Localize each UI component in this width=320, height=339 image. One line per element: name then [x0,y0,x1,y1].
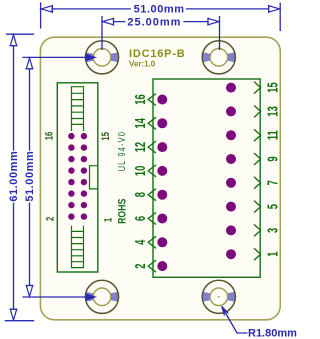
dimension 51.00mm left [22,57,88,297]
svg-text:5: 5 [264,204,281,209]
connector J1 bottom polarization slot [72,226,84,268]
mounting hole bottom-right [202,280,235,313]
svg-text:8: 8 [132,192,149,197]
hole center arrow bottom-left [86,293,98,301]
svg-text:51.00mm: 51.00mm [134,4,185,16]
svg-text:1: 1 [264,252,281,257]
even pin arrows [148,94,156,273]
svg-text:61.00mm: 61.00mm [8,151,20,202]
svg-text:51.00mm: 51.00mm [24,151,36,202]
svg-text:14: 14 [132,118,149,128]
svg-text:R1.80mm: R1.80mm [248,328,297,339]
svg-text:13: 13 [264,106,281,116]
svg-text:25.00mm: 25.00mm [127,16,181,28]
svg-text:IDC16P-B: IDC16P-B [129,48,186,60]
dimension 51.00mm top [41,2,281,31]
svg-text:16: 16 [43,132,56,141]
breakout pads even column [157,95,167,272]
dimension 61.00mm left [5,34,35,321]
mounting hole bottom-left [85,280,118,313]
connector J1 top polarization slot [72,87,84,131]
connector J1 pin pads (2x8) [68,133,87,220]
odd pin numbers [264,82,281,256]
svg-text:4: 4 [132,240,149,245]
svg-text:Ver:1.0: Ver:1.0 [129,60,156,69]
svg-text:15: 15 [264,82,281,92]
connector J1 body outline [57,83,98,272]
PCB board outline [40,37,280,320]
svg-text:UL 94-V0: UL 94-V0 [116,131,128,171]
svg-text:15: 15 [100,132,113,141]
connector J1 side key notch [90,166,98,189]
dimension 25.00mm top [102,16,220,50]
hole center arrow top-left [86,54,98,62]
svg-text:2: 2 [132,263,149,268]
even pin numbers [132,94,149,268]
svg-text:6: 6 [132,216,149,221]
odd pin arrows [254,82,261,261]
radius leader R1.80mm [222,307,248,334]
mounting hole top-right [202,41,235,74]
svg-text:2: 2 [44,217,57,221]
mounting hole top-left [85,41,118,74]
svg-text:7: 7 [264,180,281,185]
svg-text:1: 1 [102,217,115,222]
svg-text:ROHS: ROHS [116,198,128,223]
svg-text:11: 11 [264,130,281,140]
breakout pads odd column [226,83,236,260]
breakout footprint outline [153,79,260,277]
svg-text:12: 12 [132,142,149,152]
svg-text:9: 9 [264,156,281,161]
svg-text:3: 3 [264,228,281,233]
svg-text:10: 10 [132,166,149,176]
svg-text:16: 16 [132,94,149,104]
